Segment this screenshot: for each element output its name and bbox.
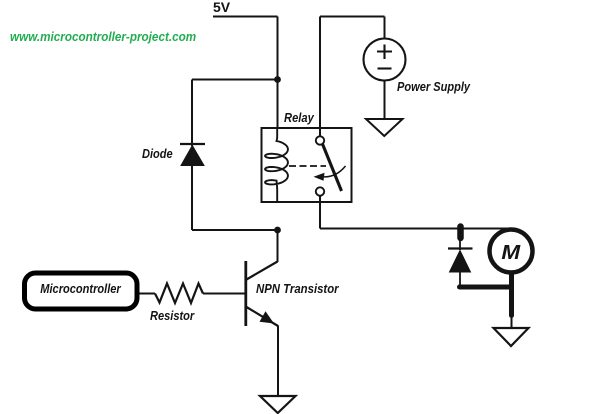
diode D2 bottom lead: [459, 272, 461, 286]
relay switch contact bottom: [316, 187, 324, 195]
wire coil node to collector: [277, 230, 279, 262]
relay switch arrowhead: [314, 173, 325, 181]
diode D2 lead: [459, 239, 461, 250]
wire junction to diode top: [192, 79, 278, 81]
motor flyback stub: [457, 227, 464, 239]
ground transistor: [260, 396, 296, 413]
diode D1 triangle: [181, 146, 204, 166]
wire 5V vertical down to relay coil: [277, 17, 279, 129]
power supply plus sign: [377, 45, 392, 60]
label www.microcontroller-project.com: [10, 29, 196, 44]
wire diode top vertical: [191, 80, 193, 147]
node junction top: [274, 76, 281, 83]
label Microcontroller: [32, 271, 128, 307]
wire microcontroller to resistor: [139, 293, 155, 295]
microcontroller box: [25, 273, 138, 309]
transistor Q1 emitter arrowhead: [260, 311, 275, 323]
thick wire diode to motor: [460, 285, 512, 290]
ground power supply: [366, 119, 403, 136]
resistor R1 zigzag: [155, 284, 203, 304]
wire top right horizontal: [320, 16, 385, 18]
wire power supply top lead: [384, 17, 386, 40]
relay switch arrow arc: [324, 166, 346, 177]
diode D2 cathode bar: [448, 247, 473, 249]
wire switch bottom lead: [319, 196, 321, 229]
diode D2 triangle: [450, 251, 471, 273]
wire power supply bottom lead: [384, 81, 386, 120]
power supply U1 circle: [364, 39, 406, 81]
relay dashed link: [289, 165, 326, 167]
diode D1 cathode bar: [180, 143, 205, 145]
wire 5V horizontal: [213, 16, 278, 18]
motor M1 circle: [490, 230, 533, 273]
node junction bottom: [274, 227, 281, 234]
wire diode bottom to coil node: [192, 229, 278, 231]
label Power Supply: [397, 79, 470, 94]
label Relay: [284, 110, 314, 125]
ground motor: [494, 328, 529, 346]
relay switch contact top: [316, 136, 324, 144]
label 5V: [213, 0, 230, 15]
wire switch top vertical: [319, 17, 321, 137]
transistor Q1 base bar: [244, 261, 247, 326]
wire diode bottom vertical: [191, 166, 193, 230]
label Diode: [142, 146, 173, 161]
transistor Q1 emitter diagonal: [247, 307, 279, 326]
relay coil L1: [265, 128, 288, 202]
relay box: [262, 128, 352, 202]
svg-text:M: M: [501, 241, 521, 264]
power supply minus sign: [378, 67, 392, 69]
relay switch arm: [323, 144, 342, 191]
wire resistor to base: [203, 293, 246, 295]
wire emitter to ground: [277, 326, 279, 397]
thick wire motor to ground: [509, 272, 514, 316]
transistor Q1 collector diagonal: [247, 262, 278, 280]
label Resistor: [150, 308, 194, 323]
wire relay to motor horizontal: [320, 228, 510, 230]
label NPN Transistor: [256, 281, 339, 296]
